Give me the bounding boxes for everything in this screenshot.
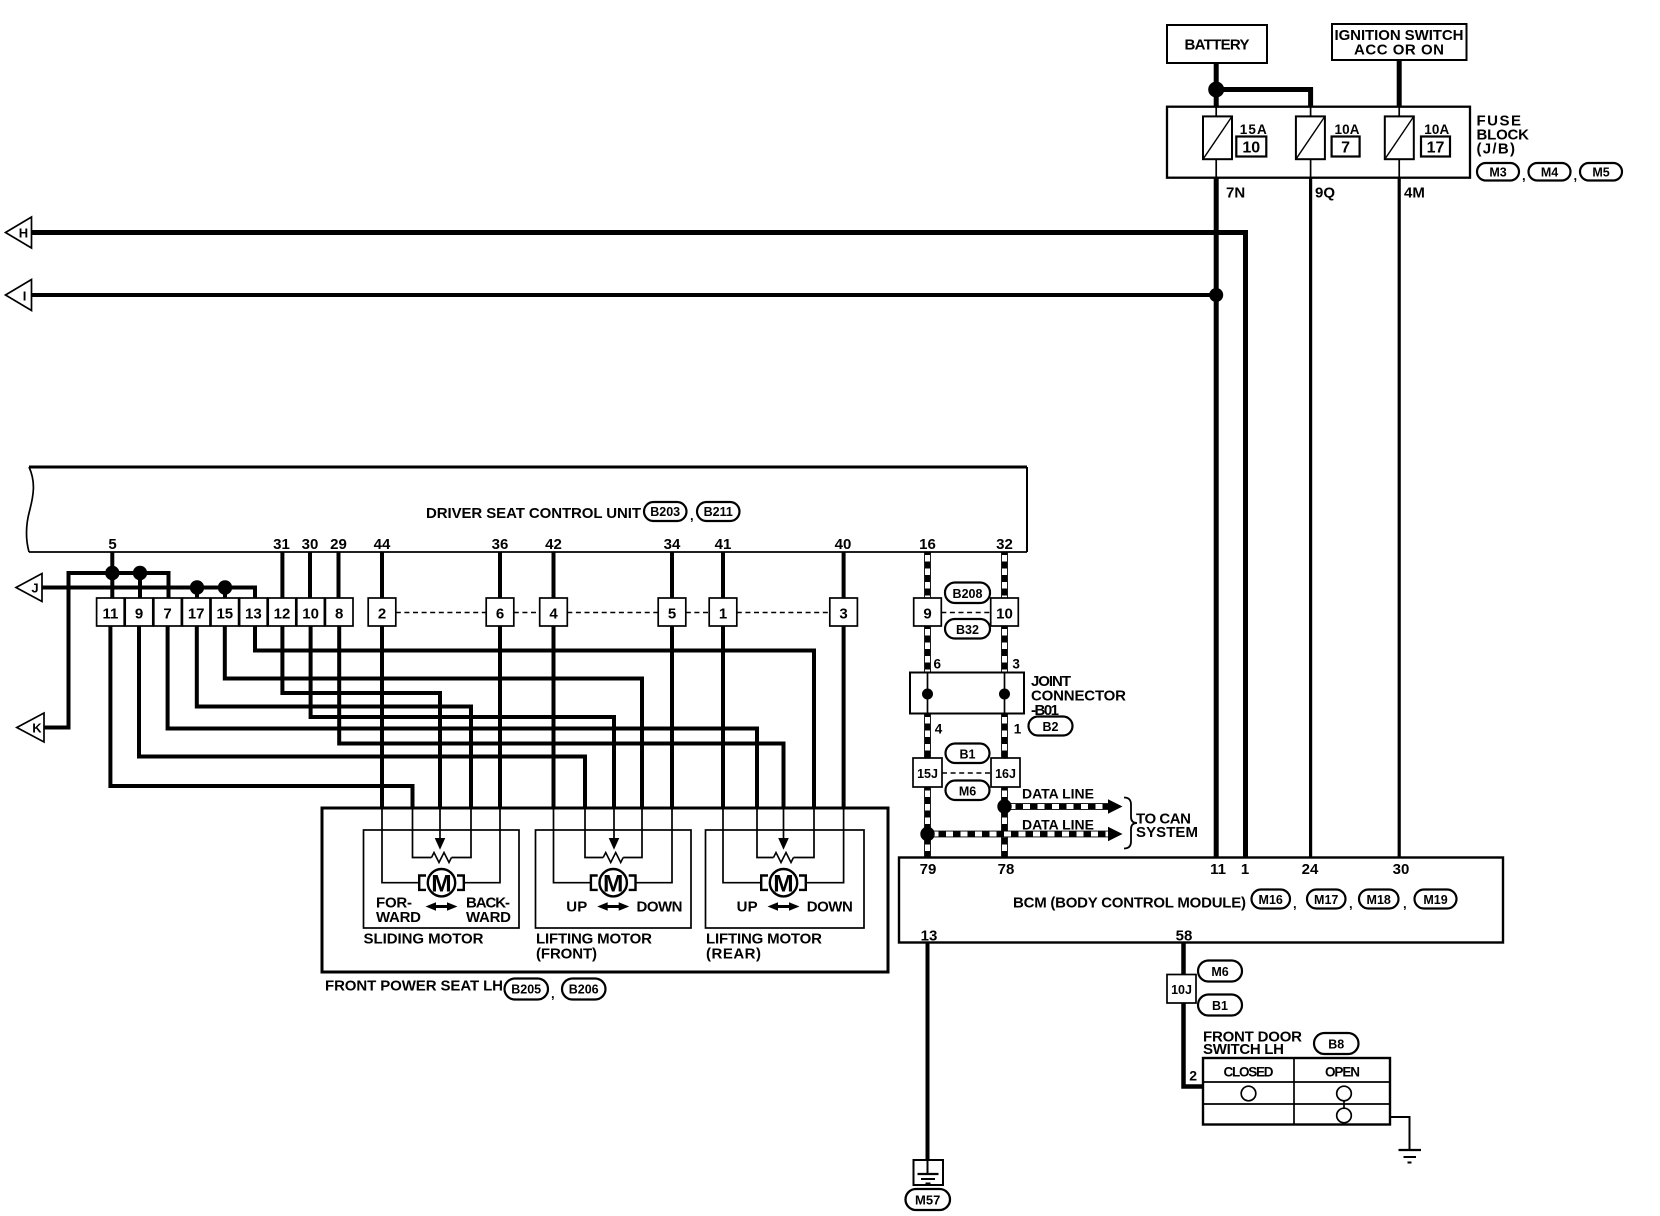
- svg-text:79: 79: [920, 861, 937, 878]
- connector pin box 9: [125, 598, 153, 626]
- svg-text:ACC OR ON: ACC OR ON: [1354, 42, 1444, 59]
- svg-text:30: 30: [302, 536, 319, 553]
- svg-text:13: 13: [245, 606, 262, 623]
- connector pin box 3: [830, 598, 858, 626]
- wire 10J to front door switch pin 2: [1184, 1003, 1204, 1087]
- svg-text:B1: B1: [960, 748, 976, 762]
- svg-text:15: 15: [216, 606, 233, 623]
- fuse F3 number box 17: [1421, 137, 1450, 157]
- dashed link 15J-16J: [942, 772, 991, 774]
- wire stub rail to connector 9: [138, 573, 142, 598]
- svg-text:17: 17: [1427, 140, 1445, 157]
- lifting motor front box: [536, 830, 692, 928]
- svg-text:M4: M4: [1541, 166, 1558, 180]
- svg-text:36: 36: [492, 536, 509, 553]
- junction dot I wire / 7N: [1209, 288, 1223, 302]
- wire battery branch to fuse 9Q column: [1216, 90, 1310, 107]
- svg-text:6: 6: [496, 606, 504, 623]
- wire pin 41 to connector 1: [721, 552, 725, 598]
- svg-text:M18: M18: [1367, 893, 1391, 907]
- wire 7N from fuse F1 to BCM pin 11: [1214, 178, 1219, 858]
- svg-text:9: 9: [135, 606, 143, 623]
- connector pin box 9 (B208/B32): [914, 598, 942, 626]
- wire I to 7N junction: [32, 293, 1217, 297]
- svg-text:11: 11: [1210, 861, 1226, 878]
- svg-text:13: 13: [921, 928, 938, 945]
- svg-text:41: 41: [715, 536, 732, 553]
- svg-text:WARD: WARD: [376, 909, 421, 926]
- svg-text:OPEN: OPEN: [1325, 1065, 1360, 1080]
- svg-text:4M: 4M: [1404, 185, 1425, 202]
- svg-text:1: 1: [1241, 861, 1249, 878]
- svg-text:B2: B2: [1043, 720, 1059, 734]
- lifting motor front label: [536, 931, 652, 963]
- lifting front direction labels: [566, 899, 682, 916]
- svg-text:FRONT POWER SEAT LH: FRONT POWER SEAT LH: [325, 978, 503, 995]
- wire stub J rail to connector 17: [195, 588, 199, 599]
- fuse block (J/B) box: [1167, 107, 1470, 178]
- lifting front direction arrow: [597, 902, 629, 910]
- svg-text:5: 5: [668, 606, 676, 623]
- svg-text:B211: B211: [704, 505, 733, 519]
- front door switch label: [1203, 1029, 1302, 1059]
- junction dot J/17: [190, 580, 204, 594]
- svg-text:(REAR): (REAR): [706, 946, 761, 963]
- battery box: [1167, 25, 1267, 63]
- svg-text:B32: B32: [956, 623, 979, 637]
- wire 4M from fuse F3 to BCM pin 30: [1398, 178, 1401, 858]
- wire pin 5 down to connector 11: [110, 552, 114, 598]
- svg-text:SYSTEM: SYSTEM: [1136, 824, 1198, 841]
- svg-text:4: 4: [935, 722, 943, 737]
- svg-text:,: ,: [1574, 168, 1578, 183]
- connector ref B206: [562, 979, 606, 1000]
- svg-text:M17: M17: [1314, 893, 1338, 907]
- svg-text:K: K: [32, 721, 42, 736]
- lifting rear motor M3: [761, 869, 806, 897]
- svg-text:10J: 10J: [1171, 983, 1192, 997]
- wire connector 6 to sliding motor right: [498, 626, 502, 808]
- CAN wire connector10 to joint connector (shielded): [1001, 626, 1008, 673]
- connector ref B8: [1314, 1033, 1359, 1054]
- connector pin box 12: [268, 598, 296, 626]
- fuse F2 number box 7: [1332, 137, 1360, 157]
- connector pin box 8: [325, 598, 353, 626]
- svg-text:B206: B206: [569, 983, 599, 997]
- connector ref M17: [1307, 890, 1353, 912]
- connector pin box 13: [240, 598, 268, 626]
- CAN wire connector9 to joint connector (shielded): [924, 626, 931, 673]
- svg-text:H: H: [19, 226, 28, 241]
- svg-text:15A: 15A: [1240, 122, 1267, 137]
- junction dot rail/pin5: [105, 566, 119, 580]
- fuse F2 10A: [1296, 107, 1325, 178]
- svg-text:B1: B1: [1212, 999, 1228, 1013]
- off-page arrow K: [17, 713, 44, 742]
- off-page arrow I: [6, 280, 32, 311]
- fuse F3 10A: [1385, 107, 1414, 178]
- svg-text:10: 10: [302, 606, 319, 623]
- svg-text:29: 29: [330, 536, 347, 553]
- svg-text:DOWN: DOWN: [637, 899, 683, 916]
- ground M57: [914, 1160, 944, 1185]
- svg-text:BATTERY: BATTERY: [1185, 37, 1250, 54]
- svg-text:2: 2: [378, 606, 386, 623]
- wire connector 13 to lifting rear resistor right: [255, 626, 814, 808]
- svg-text:9: 9: [923, 606, 931, 623]
- svg-text:SWITCH LH: SWITCH LH: [1203, 1041, 1284, 1058]
- data line 1 (shielded) to CAN system: [1005, 799, 1123, 813]
- connector pin box 10 (B208/B32): [991, 598, 1019, 626]
- wire pin 29 to connector 8: [337, 552, 341, 598]
- connector pin box 5: [658, 598, 686, 626]
- connector pin box 6: [486, 598, 514, 626]
- wire J to connectors 17 15 13: [42, 588, 255, 599]
- wire rail pin5 net to K arrow and connectors 9 and 7: [44, 573, 169, 728]
- svg-text:3: 3: [1012, 657, 1020, 672]
- svg-text:15J: 15J: [917, 767, 938, 781]
- front door switch table: [1203, 1058, 1390, 1125]
- connector ref M4: [1529, 163, 1578, 183]
- connector pin box 2: [368, 598, 396, 626]
- svg-text:10A: 10A: [1335, 122, 1360, 137]
- connector ref B208: [945, 583, 990, 604]
- svg-text:I: I: [23, 289, 27, 304]
- svg-text:UP: UP: [566, 899, 587, 916]
- connector ref M6 (10J): [1198, 961, 1242, 982]
- junction dot rail/connector 9: [133, 566, 147, 580]
- svg-text:9Q: 9Q: [1315, 185, 1335, 202]
- connector ref M5: [1580, 163, 1622, 181]
- connector pin box 15J: [913, 758, 942, 787]
- connector ref B32: [945, 619, 990, 639]
- wire ignition switch to fuse block: [1397, 60, 1402, 107]
- connector ref M57: [906, 1189, 951, 1210]
- svg-text:8: 8: [335, 606, 343, 623]
- svg-text:B8: B8: [1328, 1038, 1344, 1052]
- connector pin box 10J: [1167, 975, 1196, 1004]
- svg-text:,: ,: [1349, 896, 1353, 911]
- svg-text:78: 78: [998, 861, 1015, 878]
- wire connector 8 to lifting rear wiper arrow: [339, 626, 783, 808]
- wire connector 17 to sliding resistor right: [197, 626, 471, 808]
- front power seat LH box: [322, 808, 888, 972]
- wire pin 30 to connector 10: [308, 552, 312, 598]
- connector ref B211: [697, 502, 740, 521]
- connector pin box 4: [540, 598, 568, 626]
- connector ref M16: [1252, 890, 1297, 912]
- svg-text:,: ,: [551, 986, 555, 1001]
- wire pin 36 to connector 6: [498, 552, 502, 598]
- svg-text:M19: M19: [1423, 893, 1447, 907]
- svg-text:,: ,: [690, 508, 694, 523]
- wire pin 42 to connector 4: [552, 552, 556, 598]
- wire connector 15 to lifting front resistor right: [225, 626, 642, 808]
- connector ref M6: [946, 781, 990, 801]
- svg-text:2: 2: [1189, 1068, 1197, 1084]
- wire connector 11 to sliding resistor left: [110, 626, 412, 808]
- wire battery to fuse block: [1214, 63, 1219, 107]
- svg-text:1: 1: [719, 606, 727, 623]
- joint dot right: [999, 689, 1010, 700]
- wire connector 9 to lifting front resistor left: [139, 626, 585, 808]
- BCM box: [899, 858, 1503, 943]
- svg-text:4: 4: [549, 606, 558, 623]
- lifting rear resistor: [774, 853, 794, 863]
- svg-text:7: 7: [163, 606, 171, 623]
- svg-text:M6: M6: [959, 785, 976, 799]
- svg-text:5: 5: [108, 536, 116, 553]
- joint connector B01 box: [910, 673, 1024, 714]
- svg-text:17: 17: [188, 606, 205, 623]
- wire connector 4 to lifting front motor left: [552, 626, 556, 808]
- joint dot left: [922, 689, 933, 700]
- connector ref B1 (10J): [1198, 995, 1242, 1016]
- sliding motor resistor: [432, 853, 452, 863]
- wire stub J rail to connector 15: [223, 588, 227, 599]
- svg-text:44: 44: [374, 536, 391, 553]
- svg-text:30: 30: [1393, 861, 1410, 878]
- wire connector 7 to lifting rear resistor left: [168, 626, 757, 808]
- svg-text:10A: 10A: [1424, 122, 1449, 137]
- switch contact link: [1343, 1101, 1345, 1108]
- wire connector 5 to lifting front motor right: [670, 626, 674, 808]
- wire connector 1 to lifting rear motor left: [721, 626, 725, 808]
- svg-text:B203: B203: [650, 505, 680, 519]
- wire BCM pin 13 to ground M57: [926, 943, 930, 1161]
- svg-text:M: M: [773, 870, 793, 897]
- svg-text:32: 32: [996, 536, 1013, 553]
- connector pin box 11: [97, 598, 125, 626]
- connector pin box 17: [182, 598, 210, 626]
- lifting front motor M2: [591, 869, 636, 897]
- connector pin box 16J: [991, 758, 1020, 787]
- sliding motor direction arrow: [426, 902, 458, 910]
- svg-text:DRIVER SEAT CONTROL UNIT: DRIVER SEAT CONTROL UNIT: [426, 505, 641, 522]
- svg-text:(FRONT): (FRONT): [536, 946, 597, 963]
- svg-text:10: 10: [996, 606, 1013, 623]
- connector pin box 15: [211, 598, 239, 626]
- wire pin 40 to connector 3: [842, 552, 846, 598]
- svg-text:B205: B205: [511, 983, 541, 997]
- CAN wire joint connector to 15J (shielded): [924, 714, 931, 759]
- connector ref B203: [644, 502, 694, 523]
- junction dot J/15: [218, 580, 232, 594]
- wire connector 10 to lifting front wiper arrow: [311, 626, 614, 808]
- svg-text:M16: M16: [1259, 893, 1283, 907]
- svg-text:6: 6: [934, 657, 942, 672]
- svg-text:16: 16: [919, 536, 936, 553]
- CAN wire 15J to BCM pin 79 (shielded): [924, 787, 931, 858]
- wire 9Q from fuse F2 to BCM pin 24: [1309, 178, 1312, 858]
- switch contact open lower: [1337, 1108, 1352, 1123]
- junction dot data line 2: [920, 827, 934, 841]
- svg-text:DATA LINE: DATA LINE: [1022, 817, 1094, 833]
- lifting motor rear box: [706, 830, 865, 928]
- switch contact open upper: [1337, 1086, 1352, 1101]
- joint connector label: [1031, 673, 1126, 719]
- wire pin 34 to connector 5: [670, 552, 674, 598]
- wire connector 12 to sliding wiper arrow: [282, 626, 440, 808]
- lifting rear direction arrow: [768, 902, 800, 910]
- svg-text:3: 3: [839, 606, 847, 623]
- svg-text:SLIDING MOTOR: SLIDING MOTOR: [364, 931, 484, 948]
- svg-text:J: J: [31, 581, 38, 596]
- wire connector 3 to lifting rear motor right: [842, 626, 846, 808]
- brace to CAN system: [1124, 798, 1137, 849]
- svg-text:B208: B208: [953, 587, 983, 601]
- svg-text:M: M: [431, 870, 451, 897]
- svg-text:12: 12: [274, 606, 291, 623]
- wire pin 44 to connector 2: [380, 552, 384, 598]
- svg-text:(J/B): (J/B): [1477, 141, 1516, 158]
- dashed connector links: [396, 612, 991, 614]
- CAN wire pin 32 to connector 10 (shielded): [1001, 552, 1008, 598]
- lifting front resistor: [603, 853, 623, 863]
- svg-text:,: ,: [1293, 896, 1297, 911]
- svg-text:7: 7: [1341, 140, 1350, 157]
- svg-text:WARD: WARD: [466, 909, 511, 926]
- svg-text:31: 31: [273, 536, 290, 553]
- junction dot battery branch: [1208, 82, 1224, 98]
- wire BCM pin 58 to 10J: [1181, 943, 1186, 975]
- lifting rear direction labels: [737, 899, 853, 916]
- wire door switch to ground: [1390, 1117, 1410, 1150]
- connector ref B2: [1029, 717, 1073, 736]
- connector ref M3: [1477, 163, 1526, 183]
- svg-text:42: 42: [545, 536, 562, 553]
- data line 2 (shielded) to CAN system: [928, 827, 1123, 841]
- switch contact closed: [1241, 1086, 1256, 1101]
- svg-text:24: 24: [1302, 861, 1319, 878]
- svg-text:58: 58: [1176, 928, 1193, 945]
- wire connector 2 to sliding motor left: [380, 626, 384, 808]
- junction dot data line 1: [997, 799, 1011, 813]
- svg-text:UP: UP: [737, 899, 758, 916]
- svg-text:11: 11: [102, 606, 118, 623]
- wire through joint connector right: [1004, 673, 1006, 714]
- CAN wire joint connector to 16J (shielded): [1001, 714, 1008, 759]
- off-page arrow H: [6, 217, 32, 248]
- svg-text:M6: M6: [1211, 965, 1228, 979]
- svg-text:40: 40: [835, 536, 852, 553]
- svg-text:34: 34: [664, 536, 681, 553]
- ignition switch box: [1332, 24, 1467, 60]
- sliding motor box: [364, 830, 520, 928]
- wire pin 31 to connector 12: [280, 552, 284, 598]
- sliding motor direction labels: [376, 895, 511, 927]
- to CAN system label: [1136, 811, 1198, 842]
- svg-text:16J: 16J: [995, 767, 1016, 781]
- connector pin box 1: [709, 598, 737, 626]
- ground symbol door switch: [1399, 1150, 1422, 1163]
- lifting motor rear label: [706, 931, 822, 963]
- svg-text:10: 10: [1242, 140, 1260, 157]
- svg-text:CLOSED: CLOSED: [1224, 1065, 1274, 1080]
- svg-text:M3: M3: [1489, 166, 1506, 180]
- off-page arrow J: [16, 574, 42, 602]
- driver seat control unit box: [26, 467, 1027, 552]
- svg-text:M57: M57: [915, 1193, 940, 1208]
- svg-text:,: ,: [1403, 896, 1407, 911]
- svg-text:1: 1: [1014, 722, 1022, 737]
- svg-text:DATA LINE: DATA LINE: [1022, 786, 1094, 802]
- svg-text:M: M: [603, 870, 623, 897]
- svg-text:7N: 7N: [1226, 185, 1245, 202]
- fuse F1 number box 10: [1236, 137, 1266, 157]
- CAN wire 16J to BCM pin 78 (shielded): [1001, 787, 1008, 858]
- BCM pin labels bottom: [921, 928, 1193, 945]
- wire H to BCM pin 1: [32, 233, 1246, 858]
- connector pin box 10: [297, 598, 325, 626]
- sliding motor M1: [419, 869, 464, 897]
- CAN wire pin 16 to connector 9 (shielded): [924, 552, 931, 598]
- connector ref M19: [1415, 890, 1457, 909]
- connector ref B205: [505, 979, 555, 1002]
- connector pin box 7: [154, 598, 182, 626]
- svg-text:DOWN: DOWN: [807, 899, 853, 916]
- BCM pin labels top: [920, 861, 1410, 878]
- svg-text:BCM (BODY CONTROL MODULE): BCM (BODY CONTROL MODULE): [1013, 895, 1246, 912]
- fuse F1 15A: [1203, 107, 1232, 178]
- control unit pin labels: [108, 536, 1013, 553]
- connector ref M18: [1359, 890, 1407, 912]
- svg-text:,: ,: [1522, 168, 1526, 183]
- svg-text:M5: M5: [1592, 166, 1609, 180]
- fuse block label: [1477, 113, 1530, 158]
- wire through joint connector left: [927, 673, 929, 714]
- connector ref B1: [946, 744, 990, 764]
